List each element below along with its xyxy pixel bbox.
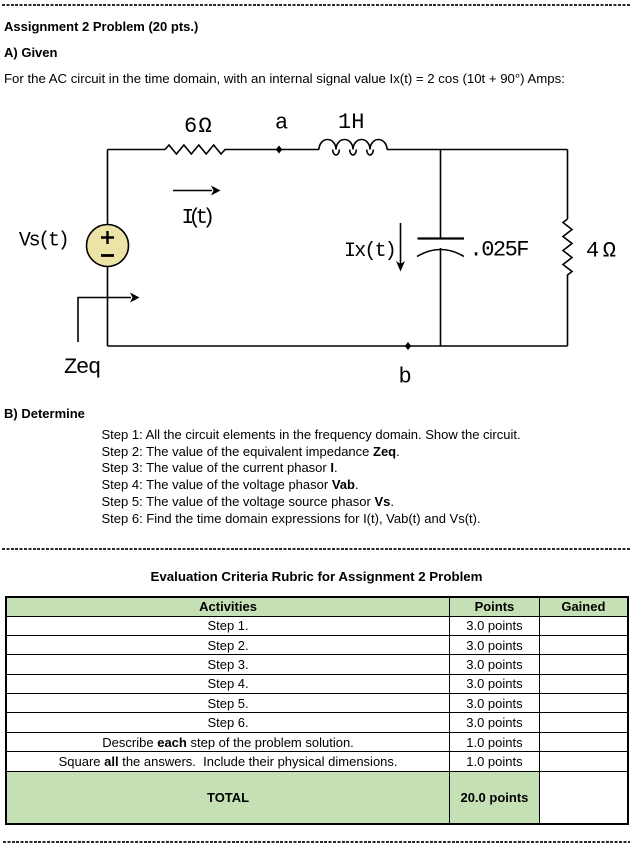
svg-text:Vs(t): Vs(t)	[19, 230, 68, 253]
svg-text:4Ω: 4Ω	[586, 239, 619, 264]
svg-text:6Ω: 6Ω	[184, 114, 213, 139]
svg-text:I(t): I(t)	[182, 207, 213, 230]
svg-text:b: b	[399, 365, 412, 390]
svg-text:Zeq: Zeq	[64, 355, 100, 380]
svg-text:Ix(t): Ix(t)	[344, 240, 395, 263]
svg-text:1H: 1H	[338, 110, 364, 135]
svg-text:a: a	[275, 111, 288, 136]
svg-text:.025F: .025F	[470, 238, 529, 263]
